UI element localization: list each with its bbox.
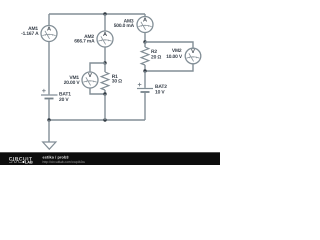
battery BAT1 [41,89,58,99]
wire R2 to BAT2 [144,71,146,88]
voltmeter VM1 [82,72,98,88]
svg-text:20.00 V: 20.00 V [64,80,81,86]
svg-text:V: V [191,49,195,55]
svg-text:10 V: 10 V [155,90,165,96]
junction dot ground node [47,118,50,121]
wire BAT2 to bottom rail [144,93,146,120]
svg-text:BAT1: BAT1 [59,92,71,98]
wire AM3 top stem [144,14,146,17]
wire VM2 bottom link [145,64,193,71]
footer bar [0,152,220,165]
svg-text:VM1: VM1 [69,75,79,81]
resistor R2 [141,42,149,71]
wire AM1 top stem [48,14,50,26]
wire bottom rail [49,119,145,121]
junction dot R2/VM2 bottom [143,69,146,72]
junction dot bottom rail R1 branch [103,118,106,121]
wire VM1 bottom link [90,88,105,94]
junction dot top rail / AM2 branch [103,12,106,15]
ammeter AM2 [97,31,113,47]
svg-text:R2: R2 [151,49,157,55]
voltmeter VM2 [185,48,201,64]
svg-text:V: V [88,73,92,79]
wire AM2 top stem [104,14,106,31]
svg-text:20 Ω: 20 Ω [151,55,161,61]
wire AM1 to BAT1 [48,42,50,95]
ammeter AM1 [41,26,57,42]
junction dot VM1/R1 bottom [103,92,106,95]
svg-text:30 Ω: 30 Ω [112,79,122,85]
svg-text:A: A [143,18,147,24]
wire AM3 bottom stem [144,32,146,42]
svg-text:A: A [47,27,51,33]
wire top rail [49,13,145,15]
wire AM2 bottom stem [104,47,106,63]
junction dot R2/VM2 top [143,40,146,43]
svg-text:LAB: LAB [25,161,33,165]
wire VM2 top link [145,42,193,48]
battery BAT2 [137,83,153,92]
svg-text:-1.167 A: -1.167 A [21,31,39,37]
junction dot VM1/R1 top [103,61,106,64]
svg-text:10.00 V: 10.00 V [166,54,183,60]
resistor R1 [101,63,109,94]
svg-text:VM2: VM2 [172,48,182,54]
svg-text:666.7 mA: 666.7 mA [74,39,95,45]
wire BAT1 to bottom rail [48,99,50,120]
svg-text:20 V: 20 V [59,97,69,103]
svg-text:A: A [103,32,107,38]
svg-text:BAT2: BAT2 [155,84,167,90]
svg-text:http://circuitlab.com/cxq463w: http://circuitlab.com/cxq463w [43,160,86,164]
ammeter AM3 [137,17,153,33]
ground [43,120,56,149]
svg-text:500.0 mA: 500.0 mA [114,23,135,29]
wire VM1 top link [90,63,105,72]
wire R1 bottom to rail [104,94,106,120]
